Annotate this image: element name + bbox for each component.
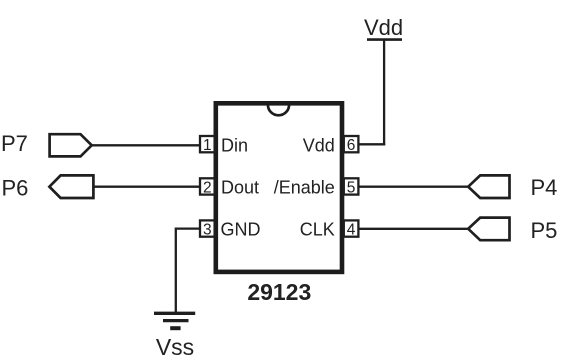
wire P6 to pin 2 bbox=[93, 186, 200, 188]
svg-text:2: 2 bbox=[203, 179, 212, 196]
svg-text:5: 5 bbox=[347, 179, 356, 196]
svg-text:Vdd: Vdd bbox=[364, 15, 403, 40]
svg-text:Vdd: Vdd bbox=[303, 135, 335, 155]
svg-text:CLK: CLK bbox=[300, 220, 335, 240]
wire pin 4 to P5 bbox=[358, 228, 469, 230]
pin 4 box bbox=[344, 220, 359, 236]
svg-text:/Enable: /Enable bbox=[274, 178, 335, 198]
Vdd bar bbox=[367, 38, 402, 41]
pin 6 box bbox=[344, 136, 359, 152]
ground symbol bbox=[154, 313, 195, 328]
pin 5 box bbox=[344, 178, 359, 194]
svg-text:P6: P6 bbox=[2, 175, 29, 200]
IC U1 body bbox=[216, 103, 342, 272]
wire P7 to pin 1 bbox=[92, 144, 201, 146]
wire Vdd vertical bbox=[383, 41, 385, 146]
svg-text:P4: P4 bbox=[531, 175, 558, 200]
svg-text:Vss: Vss bbox=[156, 334, 194, 359]
svg-text:3: 3 bbox=[203, 221, 212, 238]
svg-text:1: 1 bbox=[203, 137, 212, 154]
wire pin 3 to ground bbox=[176, 229, 201, 313]
wire pin 5 to P4 bbox=[358, 186, 469, 188]
wire Vdd to pin 6 bbox=[358, 143, 386, 145]
svg-text:4: 4 bbox=[347, 221, 356, 238]
pin 3 box bbox=[200, 220, 215, 236]
pin 2 box bbox=[200, 178, 215, 194]
svg-text:29123: 29123 bbox=[247, 279, 311, 305]
port P5 connector bbox=[468, 218, 509, 241]
svg-text:P7: P7 bbox=[1, 131, 28, 156]
svg-text:Dout: Dout bbox=[221, 178, 259, 198]
port P6 connector bbox=[49, 175, 93, 198]
pin 1 box bbox=[200, 136, 215, 152]
port P4 connector bbox=[468, 175, 509, 198]
svg-text:Din: Din bbox=[221, 135, 248, 155]
port P7 connector bbox=[50, 134, 92, 156]
svg-text:6: 6 bbox=[347, 137, 356, 154]
svg-text:P5: P5 bbox=[531, 218, 558, 243]
svg-text:GND: GND bbox=[221, 220, 261, 240]
IC notch bbox=[268, 105, 289, 116]
